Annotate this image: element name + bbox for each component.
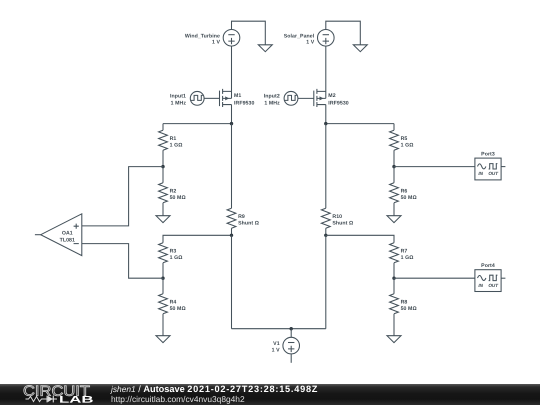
svg-text:1 V: 1 V: [212, 40, 220, 46]
wire to op-amp - input: [82, 244, 163, 279]
wire bottom rail: [232, 328, 326, 330]
footer bar: [0, 384, 540, 405]
voltage source Wind_Turbine 1 V: [185, 30, 240, 47]
op-amp OA1 TL081: [35, 214, 82, 256]
svg-text:R3: R3: [170, 248, 177, 254]
svg-text:M1: M1: [234, 93, 241, 99]
resistor R2: [159, 167, 186, 216]
svg-text:Solar_Panel: Solar_Panel: [284, 33, 315, 39]
wire to Port4: [394, 277, 475, 279]
svg-text:IRF9530: IRF9530: [234, 100, 254, 106]
resistor R7: [390, 243, 414, 278]
svg-text:IN: IN: [478, 283, 483, 288]
junction R5-R6: [392, 165, 395, 168]
svg-text:1 GΩ: 1 GΩ: [401, 255, 414, 261]
svg-text:Port3: Port3: [481, 152, 495, 158]
ground below R4: [156, 336, 170, 343]
svg-text:R7: R7: [401, 248, 408, 254]
footer text: [111, 385, 318, 405]
junction R9 bottom: [230, 234, 233, 237]
wire rail to V1: [290, 329, 292, 338]
svg-text:OUT: OUT: [488, 283, 499, 288]
port Port4: [475, 263, 506, 291]
wire node B row: [326, 123, 394, 125]
input source Input2 1 MHz: [264, 91, 298, 106]
svg-text:Shunt Ω: Shunt Ω: [238, 220, 259, 226]
wire R10 bottom to R7 top: [326, 235, 394, 243]
voltage source Solar_Panel 1 V: [284, 30, 334, 47]
svg-text:OA1: OA1: [62, 230, 73, 236]
ground below R6: [387, 216, 401, 223]
resistor R4: [159, 278, 186, 336]
resistor R1: [159, 124, 183, 167]
wire Solar_Panel to M2 source: [325, 46, 327, 98]
svg-text:1 GΩ: 1 GΩ: [170, 255, 183, 261]
svg-text:R10: R10: [332, 214, 342, 220]
CircuitLab logo: [0, 384, 110, 405]
wire to op-amp + input: [82, 167, 163, 226]
wire stub below V1: [290, 354, 292, 363]
transistor M2 IRF9530: [298, 89, 349, 107]
svg-text:50 MΩ: 50 MΩ: [170, 306, 186, 312]
wire top rail right from Solar_Panel to ground: [326, 21, 361, 45]
wire node A row: [163, 123, 232, 125]
wire R9 bottom to R3 top: [163, 235, 232, 243]
ground top-right: [353, 45, 367, 52]
svg-text:50 MΩ: 50 MΩ: [401, 195, 417, 201]
resistor R5: [390, 124, 414, 167]
svg-text:50 MΩ: 50 MΩ: [401, 306, 417, 312]
svg-text:1 V: 1 V: [306, 40, 314, 46]
junction node A: [230, 122, 233, 125]
junction R7-R8: [392, 277, 395, 280]
wire Wind_Turbine to M1 source: [231, 46, 233, 98]
ground below R2: [156, 216, 170, 223]
junction R3-R4: [161, 277, 164, 280]
svg-text:R1: R1: [170, 136, 177, 142]
svg-text:LAB: LAB: [59, 395, 94, 405]
resistor R3: [159, 243, 183, 278]
svg-text:Port4: Port4: [481, 263, 495, 269]
wire M2 drain to node B: [325, 105, 327, 124]
svg-text:Input2: Input2: [264, 93, 280, 99]
svg-text:V1: V1: [273, 341, 280, 347]
junction V1 top: [290, 327, 293, 330]
wire R9 to bottom rail: [231, 235, 233, 328]
svg-text:R8: R8: [401, 299, 408, 305]
resistor R9: [227, 124, 259, 236]
junction node B: [324, 122, 327, 125]
svg-text:M2: M2: [328, 93, 335, 99]
ground below R8: [387, 336, 401, 343]
port Port3: [475, 152, 506, 180]
svg-text:IRF9530: IRF9530: [328, 100, 348, 106]
svg-text:Input1: Input1: [170, 93, 186, 99]
junction R10 bottom: [324, 234, 327, 237]
svg-text:1 GΩ: 1 GΩ: [170, 142, 183, 148]
input source Input1 1 MHz: [170, 91, 204, 106]
svg-text:R6: R6: [401, 188, 408, 194]
svg-text:R4: R4: [170, 299, 177, 305]
wire to Port3: [394, 166, 475, 168]
svg-text:1 V: 1 V: [272, 347, 280, 353]
resistor R10: [321, 124, 353, 236]
svg-text:R2: R2: [170, 188, 177, 194]
svg-text:OUT: OUT: [488, 171, 499, 176]
transistor M1 IRF9530: [204, 89, 254, 107]
svg-text:1 MHz: 1 MHz: [171, 100, 187, 106]
svg-text:TL081: TL081: [60, 237, 75, 243]
resistor R6: [390, 167, 417, 216]
svg-text:R5: R5: [401, 136, 408, 142]
svg-text:IN: IN: [478, 171, 483, 176]
wire top rail left from Wind_Turbine to ground: [232, 21, 266, 45]
svg-text:Wind_Turbine: Wind_Turbine: [185, 33, 220, 39]
svg-text:1 MHz: 1 MHz: [264, 100, 280, 106]
junction R1-R2: [161, 165, 164, 168]
svg-text:Shunt Ω: Shunt Ω: [332, 220, 353, 226]
ground top-left: [258, 45, 272, 52]
svg-text:R9: R9: [238, 214, 245, 220]
svg-text:1 GΩ: 1 GΩ: [401, 142, 414, 148]
wire M1 drain to node A: [231, 105, 233, 124]
wire R10 to bottom rail: [325, 235, 327, 328]
resistor R8: [390, 278, 417, 336]
voltage source V1 1 V: [272, 337, 300, 354]
svg-text:50 MΩ: 50 MΩ: [170, 195, 186, 201]
